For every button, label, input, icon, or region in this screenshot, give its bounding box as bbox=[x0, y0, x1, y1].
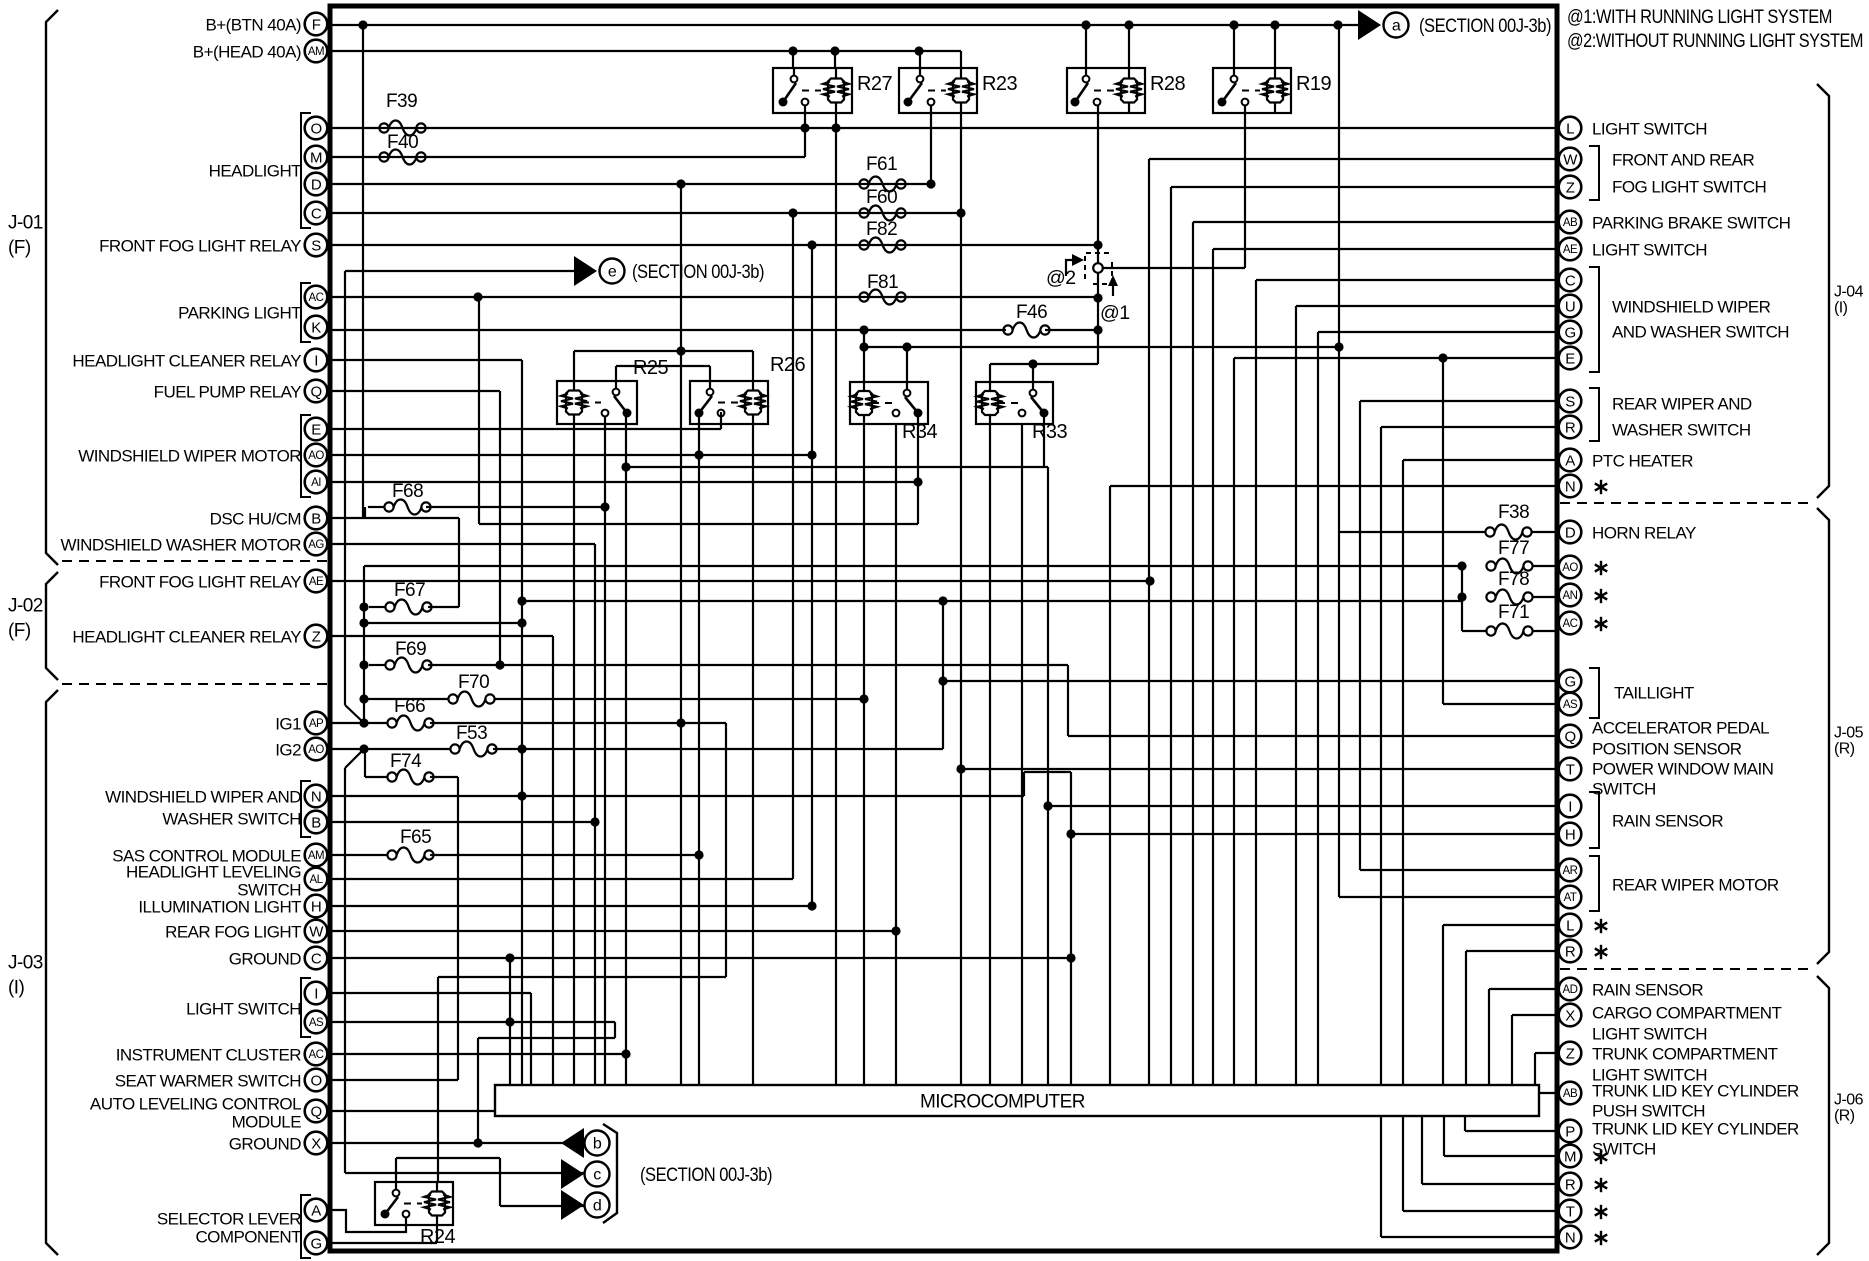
svg-text:AM: AM bbox=[308, 46, 324, 58]
wire R25 switch top lead bbox=[615, 366, 617, 381]
pin right AS y704 bbox=[1559, 693, 1582, 716]
junction K-line branch to R34 bbox=[859, 325, 868, 334]
wire F53 output long line bbox=[493, 748, 943, 750]
wire R25/R26 coil feed bbox=[574, 350, 753, 352]
svg-text:AD: AD bbox=[1563, 984, 1578, 996]
svg-text:b: b bbox=[593, 1136, 602, 1153]
svg-text:COMPONENT: COMPONENT bbox=[195, 1228, 301, 1247]
wire F71 input bbox=[1462, 630, 1486, 632]
wire ground bus x1071 bbox=[1070, 772, 1072, 1085]
wire W drop to AE junction and microcomputer bbox=[1148, 159, 1150, 1085]
svg-text:(SECTION 00J-3b): (SECTION 00J-3b) bbox=[632, 261, 764, 283]
svg-text:F: F bbox=[312, 17, 321, 34]
svg-text:INSTRUMENT CLUSTER: INSTRUMENT CLUSTER bbox=[116, 1046, 302, 1065]
pin left AI y482 bbox=[305, 471, 328, 494]
svg-text:AR: AR bbox=[1563, 865, 1578, 877]
svg-text:SELECTOR LEVER: SELECTOR LEVER bbox=[157, 1210, 301, 1229]
wire I2 light switch line bbox=[332, 992, 531, 994]
wire section e line bbox=[345, 270, 576, 272]
fuse F68 bbox=[384, 481, 430, 515]
relay R25 bbox=[557, 357, 668, 424]
junction N line tap bbox=[517, 791, 526, 800]
svg-text:H: H bbox=[311, 899, 321, 916]
pin left Q y1111 bbox=[305, 1100, 328, 1123]
svg-text:K: K bbox=[311, 320, 321, 337]
wire x943 link bbox=[942, 601, 944, 749]
wire N cross link bbox=[1024, 771, 1071, 773]
wire N wiper washer line bbox=[332, 795, 1024, 797]
wire F66 output bbox=[430, 722, 726, 724]
svg-text:AS: AS bbox=[1563, 699, 1578, 711]
wire branch y623 bbox=[364, 622, 522, 624]
fuse F67 bbox=[385, 580, 431, 615]
junction F65 junction on R26 pivot drop bbox=[694, 850, 703, 859]
svg-text:G: G bbox=[1564, 325, 1575, 342]
wire R34 NO drop bbox=[895, 424, 897, 1085]
wire R* line bbox=[1466, 950, 1558, 952]
svg-text:A: A bbox=[1565, 453, 1575, 470]
pin right AO y567 bbox=[1559, 556, 1582, 579]
svg-text:PTC HEATER: PTC HEATER bbox=[1592, 452, 1693, 471]
pin right H y834 bbox=[1559, 823, 1582, 846]
right dashed separator J-04/J-05 bbox=[1560, 502, 1810, 504]
junction F68 output junction bbox=[600, 502, 609, 511]
svg-text:O: O bbox=[310, 121, 321, 138]
svg-text:REAR WIPER AND: REAR WIPER AND bbox=[1612, 395, 1752, 414]
pin right S y401 bbox=[1559, 390, 1582, 413]
wire R26 coil top lead bbox=[752, 351, 754, 381]
junction AM-bus x835 bbox=[830, 46, 839, 55]
wire Q fuel pump line bbox=[332, 390, 500, 392]
svg-text:RAIN SENSOR: RAIN SENSOR bbox=[1612, 812, 1723, 831]
wire H rain sensor line bbox=[1071, 833, 1558, 835]
junction C ground junction bbox=[1066, 953, 1075, 962]
pin left I y993 bbox=[305, 982, 328, 1005]
junction D line tap for coils bbox=[676, 179, 685, 188]
pin right T y1211 bbox=[1559, 1200, 1582, 1223]
right pin group brackets bbox=[1589, 146, 1599, 200]
junction T junction on x961 drop bbox=[956, 764, 965, 773]
svg-text:PUSH SWITCH: PUSH SWITCH bbox=[1592, 1102, 1705, 1121]
svg-text:W: W bbox=[309, 924, 324, 941]
pin right AR y870 bbox=[1559, 859, 1582, 882]
svg-text:R19: R19 bbox=[1296, 73, 1331, 95]
svg-text:P: P bbox=[1565, 1124, 1575, 1141]
pin left Z y636 bbox=[305, 625, 328, 648]
svg-text:F40: F40 bbox=[387, 132, 418, 153]
svg-text:ILLUMINATION LIGHT: ILLUMINATION LIGHT bbox=[138, 898, 301, 917]
pin right AB y222 bbox=[1559, 211, 1582, 234]
svg-text:AN: AN bbox=[1563, 590, 1578, 602]
svg-text:F46: F46 bbox=[1016, 302, 1047, 323]
wire F77 to AO pin bbox=[1532, 565, 1558, 567]
svg-text:AO: AO bbox=[308, 744, 324, 756]
wire N drop bbox=[1109, 486, 1111, 1085]
pin left F y24 bbox=[305, 13, 328, 36]
asterisk mark at pin y623 bbox=[1595, 617, 1607, 631]
asterisk mark at pin y1184 bbox=[1595, 1178, 1607, 1192]
pin left B y518 bbox=[305, 507, 328, 530]
pin left AE y581 bbox=[305, 570, 328, 593]
junction y623 to x522 bbox=[517, 618, 526, 627]
wire E drop bbox=[1233, 358, 1235, 1085]
junction X junction bbox=[473, 1138, 482, 1147]
pin left G y1243 bbox=[305, 1232, 328, 1255]
svg-text:R25: R25 bbox=[633, 357, 668, 379]
junction L-line R27 switch tap bbox=[800, 123, 809, 132]
svg-text:SEAT WARMER SWITCH: SEAT WARMER SWITCH bbox=[115, 1072, 301, 1091]
right dashed separator J-05/J-06 bbox=[1560, 968, 1810, 970]
wire R25 coil drop bbox=[573, 424, 575, 1085]
wire section d line bbox=[500, 1205, 584, 1207]
junction AP junction bbox=[359, 718, 368, 727]
wire AI wiper motor line bbox=[332, 481, 918, 483]
junction I-right junction bbox=[1043, 801, 1052, 810]
junction H junction on ground bus bbox=[1066, 829, 1075, 838]
wire x510 drop from ground line bbox=[509, 958, 511, 1085]
svg-text:AM: AM bbox=[308, 850, 324, 862]
pin right X y1015 bbox=[1559, 1004, 1582, 1027]
svg-text:MICROCOMPUTER: MICROCOMPUTER bbox=[920, 1092, 1085, 1113]
svg-text:(F): (F) bbox=[8, 621, 31, 642]
wire U wiper line bbox=[1296, 305, 1558, 307]
wire AC branch cross line y524 bbox=[479, 523, 918, 525]
wire x522 bus upper bbox=[521, 360, 523, 623]
junction AM-bus x793 bbox=[788, 46, 797, 55]
wire L* drop bbox=[1442, 925, 1444, 1085]
svg-text:B+(BTN 40A): B+(BTN 40A) bbox=[205, 16, 301, 35]
svg-text:J-03: J-03 bbox=[8, 953, 43, 974]
left pin group brackets bbox=[301, 113, 311, 228]
J-05 brace bbox=[1817, 508, 1829, 964]
wire R24 switch top lead bbox=[395, 1158, 397, 1182]
svg-text:J-06: J-06 bbox=[1834, 1092, 1864, 1109]
wire I2 feed down bbox=[530, 993, 532, 1085]
pin left C y958 bbox=[305, 947, 328, 970]
svg-text:F65: F65 bbox=[400, 827, 431, 848]
svg-text:Z: Z bbox=[1566, 1046, 1575, 1063]
wire AS accelerator line bbox=[1443, 703, 1558, 705]
svg-text:B: B bbox=[311, 511, 321, 528]
wire R34 switch top lead bbox=[906, 347, 908, 382]
wire I rain sensor line bbox=[1048, 805, 1558, 807]
wire R19 switch top lead bbox=[1233, 25, 1235, 68]
junction R34 coil feed tap bbox=[859, 342, 868, 351]
relay R23 bbox=[899, 68, 1017, 113]
pin left A y1210 bbox=[305, 1199, 328, 1222]
fuse F69 bbox=[385, 639, 431, 673]
junction F60 line junction bbox=[788, 208, 797, 217]
svg-text:@2:WITHOUT RUNNING LIGHT SYSTE: @2:WITHOUT RUNNING LIGHT SYSTEM bbox=[1567, 30, 1863, 52]
relay R33 bbox=[976, 382, 1067, 443]
pin left B y822 bbox=[305, 811, 328, 834]
junction bus y623 junction bbox=[359, 618, 368, 627]
junction F70 junction bbox=[359, 694, 368, 703]
wire section d riser bbox=[499, 1158, 501, 1206]
svg-text:HORN RELAY: HORN RELAY bbox=[1592, 524, 1696, 543]
wire R33 pivot lead down bbox=[1043, 416, 1045, 467]
svg-text:F71: F71 bbox=[1498, 602, 1529, 623]
wire T power window line bbox=[961, 768, 1558, 770]
pin right AN y595 bbox=[1559, 584, 1582, 607]
svg-text:X: X bbox=[1565, 1008, 1575, 1025]
wire A PTC line bbox=[1403, 459, 1558, 461]
junction F-bus x1086 bbox=[1081, 20, 1090, 29]
pin left N y796 bbox=[305, 785, 328, 808]
svg-text:AE: AE bbox=[309, 576, 324, 588]
svg-text:G: G bbox=[1564, 674, 1575, 691]
svg-text:Q: Q bbox=[310, 384, 321, 401]
pin right N y1237 bbox=[1559, 1226, 1582, 1249]
pin left AC y1054 bbox=[305, 1043, 328, 1066]
pin right P y1131 bbox=[1559, 1120, 1582, 1143]
junction B2 end junction bbox=[590, 817, 599, 826]
wire R23 coil top lead bbox=[960, 51, 962, 68]
svg-text:F74: F74 bbox=[390, 751, 422, 772]
wire R25 pivot drop bbox=[625, 412, 627, 1085]
svg-text:F70: F70 bbox=[458, 672, 489, 693]
pin left C y213 bbox=[305, 202, 328, 225]
pin right D y532 bbox=[1559, 521, 1582, 544]
svg-text:R: R bbox=[1565, 944, 1576, 961]
svg-text:N: N bbox=[1565, 479, 1575, 496]
wire F77/F78/F71 bus bbox=[1461, 566, 1463, 631]
svg-text:(SECTION 00J-3b): (SECTION 00J-3b) bbox=[1419, 15, 1551, 37]
svg-text:(I): (I) bbox=[8, 978, 25, 999]
fuse F70 bbox=[448, 672, 494, 707]
wire cross line y977 bbox=[438, 976, 726, 978]
svg-text:Z: Z bbox=[1566, 180, 1575, 197]
junction R34 feed junction bbox=[1334, 342, 1343, 351]
junction F-bus x363 bbox=[358, 20, 367, 29]
wire pin AM bus bbox=[332, 50, 919, 52]
svg-text:B+(HEAD 40A): B+(HEAD 40A) bbox=[193, 43, 301, 62]
microcomputer box bbox=[495, 1085, 1539, 1116]
pin right AT y897 bbox=[1559, 886, 1582, 909]
wire X ground line to section b bbox=[332, 1142, 584, 1144]
svg-text:I: I bbox=[314, 986, 318, 1003]
wire x1048 drop bbox=[1047, 467, 1049, 1085]
wire @2 output line bbox=[1103, 267, 1245, 269]
wire R34 coil top feed bbox=[863, 330, 865, 382]
svg-text:(SECTION 00J-3b): (SECTION 00J-3b) bbox=[640, 1164, 772, 1186]
pin right R y951 bbox=[1559, 940, 1582, 963]
pin left D y184 bbox=[305, 173, 328, 196]
wire N line bbox=[1110, 485, 1558, 487]
fuse F82 bbox=[859, 219, 905, 253]
junction R26 pivot junction bbox=[694, 450, 703, 459]
fuse F81 bbox=[859, 272, 905, 305]
svg-text:R: R bbox=[1565, 420, 1576, 437]
wire AD rain sensor line bbox=[1489, 988, 1558, 990]
wire N riser bbox=[1023, 772, 1025, 796]
junction AC-line branch bbox=[473, 292, 482, 301]
svg-text:R28: R28 bbox=[1150, 73, 1185, 95]
wire G wiper line bbox=[1318, 331, 1558, 333]
wire R27 coil bottom lead long drop bbox=[835, 113, 837, 1085]
junction F-bus x1129 bbox=[1124, 20, 1133, 29]
svg-text:J-02: J-02 bbox=[8, 596, 43, 617]
svg-text:O: O bbox=[310, 1073, 321, 1090]
svg-text:AND WASHER SWITCH: AND WASHER SWITCH bbox=[1612, 323, 1789, 342]
wire Q feed riser bbox=[1067, 665, 1069, 736]
wire AC2 instrument line bbox=[332, 1053, 626, 1055]
junction H junction bbox=[807, 901, 816, 910]
junction F69 output junction bbox=[495, 660, 504, 669]
svg-text:RAIN SENSOR: RAIN SENSOR bbox=[1592, 981, 1703, 1000]
wire Z trunk line bbox=[1535, 1052, 1558, 1054]
svg-text:F77: F77 bbox=[1498, 538, 1529, 559]
junction C-line tap to taillight feed bbox=[956, 208, 965, 217]
svg-text:C: C bbox=[1565, 273, 1576, 290]
asterisk mark at pin y951 bbox=[1595, 945, 1607, 959]
svg-text:Z: Z bbox=[312, 629, 321, 646]
svg-text:N: N bbox=[1565, 1230, 1575, 1247]
svg-text:REAR WIPER MOTOR: REAR WIPER MOTOR bbox=[1612, 876, 1779, 895]
wire AP IG1 line bbox=[332, 722, 387, 724]
wire AD drop bbox=[1488, 989, 1490, 1085]
wire S rear wiper line bbox=[1360, 400, 1558, 402]
pin left AO y455 bbox=[305, 444, 328, 467]
section arrow e bbox=[574, 256, 764, 286]
pin right R y427 bbox=[1559, 416, 1582, 439]
svg-text:E: E bbox=[1565, 351, 1575, 368]
svg-text:DSC HU/CM: DSC HU/CM bbox=[210, 510, 301, 529]
pin left O y1080 bbox=[305, 1069, 328, 1092]
wire Q2 auto leveling line to microcomputer bbox=[332, 1110, 495, 1112]
svg-text:X: X bbox=[311, 1136, 321, 1153]
pin right Z y187 bbox=[1559, 176, 1582, 199]
svg-text:Q: Q bbox=[1564, 729, 1575, 746]
wire T3* line bbox=[1403, 1210, 1558, 1212]
svg-text:F82: F82 bbox=[866, 219, 897, 240]
wire C drop bbox=[1255, 280, 1257, 1085]
wire R19 switch bottom lead bbox=[1244, 106, 1246, 268]
svg-text:AB: AB bbox=[1563, 1088, 1578, 1100]
wire AB parking brake line bbox=[1193, 221, 1558, 223]
wire R28 coil top lead bbox=[1128, 25, 1130, 68]
svg-text:REAR FOG LIGHT: REAR FOG LIGHT bbox=[165, 923, 301, 942]
wire IG bus jog from AO bbox=[345, 749, 364, 768]
svg-text:SWITCH: SWITCH bbox=[1592, 780, 1656, 799]
wire AO IG2 line bbox=[332, 748, 450, 750]
asterisk mark at pin y1156 bbox=[1595, 1150, 1607, 1164]
wire AR rear wiper motor line bbox=[1360, 869, 1558, 871]
svg-text:R34: R34 bbox=[902, 421, 937, 443]
svg-text:FRONT AND REAR: FRONT AND REAR bbox=[1612, 151, 1754, 170]
svg-text:FRONT FOG LIGHT RELAY: FRONT FOG LIGHT RELAY bbox=[99, 237, 301, 256]
pin left Q y391 bbox=[305, 380, 328, 403]
svg-text:WINDSHIELD WIPER AND: WINDSHIELD WIPER AND bbox=[105, 788, 301, 807]
junction F-bus x1234 bbox=[1229, 20, 1238, 29]
svg-text:AP: AP bbox=[309, 718, 324, 730]
wire R26 switch top lead bbox=[709, 366, 711, 381]
wire Z headlight cleaner line bbox=[332, 635, 553, 637]
svg-text:J-01: J-01 bbox=[8, 213, 43, 234]
wire A drop bbox=[1402, 460, 1404, 1085]
fuse F65 bbox=[387, 827, 433, 863]
svg-text:HEADLIGHT: HEADLIGHT bbox=[209, 162, 302, 181]
wire B2 wiper washer line bbox=[332, 821, 595, 823]
wire R19 coil top lead bbox=[1274, 25, 1276, 68]
wire R26 coil drop bbox=[752, 424, 754, 1085]
wire R33 coil top lead bbox=[989, 364, 991, 382]
wire R27 coil top lead bbox=[834, 51, 836, 68]
wire @ vertical down to R33 feed bbox=[1097, 330, 1099, 364]
svg-text:LIGHT SWITCH: LIGHT SWITCH bbox=[1592, 120, 1707, 139]
svg-text:WASHER SWITCH: WASHER SWITCH bbox=[1612, 421, 1751, 440]
asterisk mark at pin y1211 bbox=[1595, 1205, 1607, 1219]
wire R25 NO lead down through F68 output bbox=[604, 416, 606, 1085]
wire B DSC line bbox=[332, 517, 459, 519]
svg-text:AE: AE bbox=[1563, 244, 1578, 256]
junction F61 output junction bbox=[926, 179, 935, 188]
wire R* drop bbox=[1465, 951, 1467, 1085]
wire R24 coil feed bbox=[437, 977, 439, 1182]
svg-text:J-05: J-05 bbox=[1834, 725, 1864, 742]
pin left AP y723 bbox=[305, 712, 328, 735]
wire E wiper line bbox=[1234, 357, 1558, 359]
wire AS jog down bbox=[614, 1022, 616, 1038]
svg-text:WINDSHIELD WIPER MOTOR: WINDSHIELD WIPER MOTOR bbox=[78, 447, 301, 466]
svg-text:F67: F67 bbox=[394, 580, 425, 601]
fuse F74 bbox=[387, 751, 433, 785]
pin right AC y623 bbox=[1559, 612, 1582, 635]
junction F-bus x1275 bbox=[1270, 20, 1279, 29]
wire F71 to AC pin bbox=[1532, 630, 1558, 632]
wire F74 output bbox=[430, 776, 458, 778]
fuse F66 bbox=[387, 696, 433, 731]
wire F feed down to B line bbox=[362, 25, 364, 518]
svg-text:@1: @1 bbox=[1100, 302, 1130, 324]
svg-text:HEADLIGHT CLEANER RELAY: HEADLIGHT CLEANER RELAY bbox=[72, 352, 301, 371]
wire Z feed down x553 bbox=[552, 636, 554, 1085]
svg-text:GROUND: GROUND bbox=[229, 950, 302, 969]
svg-text:D: D bbox=[311, 177, 322, 194]
asterisk mark at pin y595 bbox=[1595, 589, 1607, 603]
wire AE drop bbox=[1212, 249, 1214, 1085]
fuse F38 bbox=[1485, 502, 1531, 540]
junction AP line coil-bus junction bbox=[676, 718, 685, 727]
pin left AG y544 bbox=[305, 533, 328, 556]
pin right M y1156 bbox=[1559, 1145, 1582, 1168]
svg-text:e: e bbox=[608, 264, 617, 281]
wire x681 coil bus bbox=[680, 184, 682, 1085]
svg-text:U: U bbox=[1565, 299, 1575, 316]
svg-text:AO: AO bbox=[308, 450, 324, 462]
svg-text:IG1: IG1 bbox=[275, 715, 301, 734]
wire G ground line bbox=[332, 1242, 437, 1244]
svg-text:(I): (I) bbox=[1834, 300, 1848, 317]
section arrow a bbox=[1358, 10, 1551, 40]
svg-text:TAILLIGHT: TAILLIGHT bbox=[1614, 684, 1694, 703]
svg-text:AC: AC bbox=[309, 1049, 324, 1061]
pin right C y280 bbox=[1559, 269, 1582, 292]
svg-text:@2: @2 bbox=[1046, 267, 1076, 289]
svg-text:A: A bbox=[311, 1203, 321, 1220]
wire AE front fog line bbox=[332, 580, 1150, 582]
svg-text:F68: F68 bbox=[392, 481, 423, 502]
wire R26 NO contact lead bbox=[720, 412, 722, 429]
fuse F39 bbox=[379, 91, 425, 136]
wire x522 bus bbox=[521, 623, 523, 1085]
wire L* line bbox=[1443, 924, 1558, 926]
svg-text:@1:WITH RUNNING LIGHT SYSTEM: @1:WITH RUNNING LIGHT SYSTEM bbox=[1567, 6, 1832, 28]
svg-text:FRONT FOG LIGHT RELAY: FRONT FOG LIGHT RELAY bbox=[99, 573, 301, 592]
svg-text:C: C bbox=[311, 206, 322, 223]
wire C wiper line bbox=[1256, 279, 1558, 281]
wire cross feed line y467 bbox=[626, 466, 1048, 468]
